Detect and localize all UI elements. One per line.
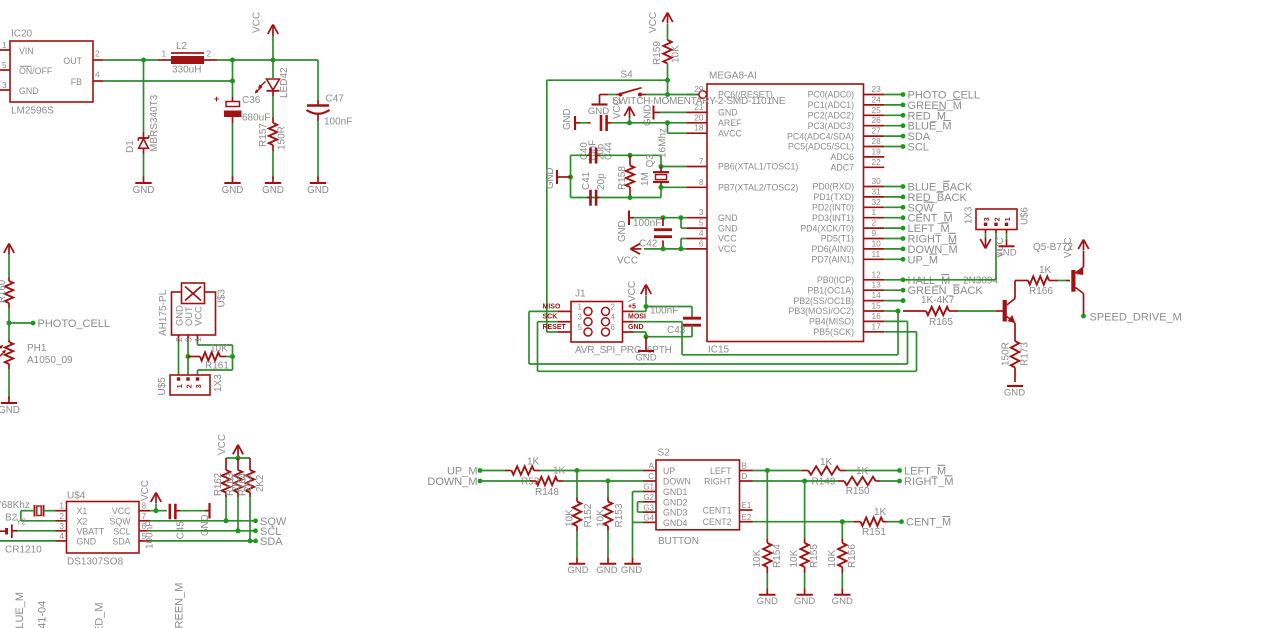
svg-text:C: C bbox=[648, 472, 654, 481]
svg-text:GND: GND bbox=[222, 185, 244, 196]
svg-text:DS1307SO8: DS1307SO8 bbox=[67, 557, 124, 568]
svg-text:SCL: SCL bbox=[908, 142, 929, 154]
svg-text:4: 4 bbox=[611, 313, 616, 322]
svg-text:CENT2: CENT2 bbox=[703, 517, 732, 527]
svg-text:2K2: 2K2 bbox=[255, 475, 266, 492]
svg-text:AREF: AREF bbox=[718, 118, 742, 128]
svg-text:GND: GND bbox=[562, 108, 573, 130]
svg-text:GND: GND bbox=[621, 565, 642, 576]
svg-text:VCC: VCC bbox=[617, 256, 638, 267]
svg-text:VCC: VCC bbox=[140, 480, 151, 501]
svg-text:C43: C43 bbox=[667, 325, 686, 336]
svg-text:2: 2 bbox=[95, 49, 100, 59]
svg-text:2N3094: 2N3094 bbox=[963, 275, 998, 286]
svg-text:3: 3 bbox=[59, 521, 64, 531]
svg-text:16: 16 bbox=[872, 311, 882, 321]
svg-text:U$5: U$5 bbox=[157, 377, 168, 396]
svg-text:8: 8 bbox=[142, 501, 147, 511]
svg-text:VCC: VCC bbox=[627, 281, 638, 302]
svg-text:19: 19 bbox=[872, 146, 882, 156]
svg-text:5: 5 bbox=[578, 323, 583, 332]
svg-text:10K: 10K bbox=[827, 549, 838, 567]
svg-text:PD7(AIN1): PD7(AIN1) bbox=[811, 255, 854, 265]
svg-text:PC3(ADC3): PC3(ADC3) bbox=[808, 121, 855, 131]
svg-text:SCL: SCL bbox=[113, 526, 130, 536]
svg-text:2: 2 bbox=[611, 302, 616, 311]
svg-text:10K: 10K bbox=[565, 509, 576, 527]
svg-text:RIGHT: RIGHT bbox=[704, 477, 732, 487]
svg-text:2: 2 bbox=[994, 217, 1001, 221]
svg-text:GND2: GND2 bbox=[663, 497, 688, 507]
svg-text:GND: GND bbox=[757, 596, 778, 607]
svg-text:20p: 20p bbox=[596, 173, 607, 190]
svg-text:1K: 1K bbox=[527, 457, 540, 468]
svg-text:SDA: SDA bbox=[112, 536, 130, 546]
svg-text:2: 2 bbox=[207, 49, 212, 59]
svg-text:PB6(XTAL1/TOSC1): PB6(XTAL1/TOSC1) bbox=[718, 162, 798, 172]
svg-text:GND3: GND3 bbox=[663, 508, 688, 518]
svg-text:10K: 10K bbox=[752, 549, 763, 567]
svg-text:VCC: VCC bbox=[718, 244, 737, 254]
svg-text:GND: GND bbox=[832, 596, 853, 607]
svg-text:1: 1 bbox=[1005, 217, 1012, 221]
svg-text:5: 5 bbox=[699, 218, 704, 228]
svg-text:VCC: VCC bbox=[112, 506, 131, 516]
svg-text:7: 7 bbox=[142, 511, 147, 521]
svg-text:GND: GND bbox=[1004, 388, 1025, 399]
svg-text:100nF: 100nF bbox=[324, 117, 352, 128]
svg-text:1K: 1K bbox=[1039, 265, 1052, 276]
svg-text:GND: GND bbox=[262, 185, 284, 196]
svg-text:R165: R165 bbox=[929, 317, 953, 328]
svg-text:1K-4K7: 1K-4K7 bbox=[921, 295, 955, 306]
svg-text:R166: R166 bbox=[1029, 286, 1053, 297]
svg-text:1K: 1K bbox=[553, 466, 566, 477]
svg-text:10K: 10K bbox=[671, 45, 682, 63]
svg-text:4: 4 bbox=[59, 531, 64, 541]
svg-text:18: 18 bbox=[694, 123, 704, 133]
svg-text:GND: GND bbox=[718, 108, 738, 118]
svg-text:1K: 1K bbox=[856, 466, 869, 477]
svg-text:L2: L2 bbox=[176, 41, 188, 52]
svg-text:1M: 1M bbox=[640, 172, 651, 186]
svg-text:C44: C44 bbox=[604, 142, 615, 160]
svg-text:R160: R160 bbox=[0, 279, 8, 303]
svg-text:C41: C41 bbox=[581, 171, 592, 190]
svg-text:PB4(MISO): PB4(MISO) bbox=[809, 317, 854, 327]
svg-text:2: 2 bbox=[186, 384, 193, 388]
svg-text:C47: C47 bbox=[326, 94, 345, 105]
svg-text:D: D bbox=[742, 472, 748, 481]
svg-text:R158: R158 bbox=[617, 166, 628, 190]
svg-text:J1: J1 bbox=[575, 289, 586, 300]
svg-text:GND: GND bbox=[567, 565, 588, 576]
svg-text:RESET: RESET bbox=[543, 324, 567, 331]
svg-text:GND: GND bbox=[19, 86, 39, 96]
svg-text:27: 27 bbox=[872, 126, 882, 136]
svg-text:R155: R155 bbox=[809, 544, 820, 568]
svg-text:G2: G2 bbox=[643, 493, 654, 502]
svg-text:4: 4 bbox=[95, 70, 100, 80]
svg-text:S2: S2 bbox=[658, 448, 671, 459]
svg-text:15: 15 bbox=[872, 301, 882, 311]
svg-text:PB5(SCK): PB5(SCK) bbox=[813, 327, 854, 337]
svg-text:2K2: 2K2 bbox=[243, 475, 254, 492]
svg-text:MEGA8-AI: MEGA8-AI bbox=[709, 71, 757, 82]
svg-text:3: 3 bbox=[699, 207, 704, 217]
svg-text:7: 7 bbox=[699, 156, 704, 166]
svg-text:DOWN_M: DOWN_M bbox=[427, 476, 477, 488]
svg-text:16Mhz: 16Mhz bbox=[658, 128, 669, 158]
svg-text:+5: +5 bbox=[628, 303, 636, 310]
svg-text:10K: 10K bbox=[210, 344, 228, 355]
svg-text:1: 1 bbox=[59, 501, 64, 511]
svg-text:PD0(RXD): PD0(RXD) bbox=[812, 182, 854, 192]
svg-text:1: 1 bbox=[177, 384, 184, 388]
svg-text:29: 29 bbox=[694, 84, 704, 94]
svg-text:24: 24 bbox=[872, 94, 882, 104]
svg-text:R159: R159 bbox=[652, 41, 663, 65]
svg-text:GND: GND bbox=[617, 220, 628, 242]
svg-text:ON/OFF: ON/OFF bbox=[19, 66, 53, 76]
svg-text:330uH: 330uH bbox=[172, 65, 201, 76]
svg-text:30: 30 bbox=[872, 176, 882, 186]
svg-text:ADC7: ADC7 bbox=[831, 163, 855, 173]
svg-text:PB3(MOSI/OC2): PB3(MOSI/OC2) bbox=[789, 306, 855, 316]
svg-text:GND: GND bbox=[77, 536, 97, 546]
svg-text:VCC: VCC bbox=[193, 306, 204, 326]
svg-text:IC15: IC15 bbox=[708, 345, 730, 356]
svg-text:PD2(INT0): PD2(INT0) bbox=[812, 203, 854, 213]
svg-text:22: 22 bbox=[872, 157, 882, 167]
svg-text:3: 3 bbox=[196, 384, 203, 388]
svg-text:2: 2 bbox=[59, 511, 64, 521]
svg-text:X2: X2 bbox=[77, 516, 88, 526]
svg-text:GND: GND bbox=[0, 405, 20, 416]
svg-text:13: 13 bbox=[872, 280, 882, 290]
svg-text:CENT_M: CENT_M bbox=[906, 517, 951, 529]
svg-text:ADC6: ADC6 bbox=[831, 152, 855, 162]
svg-text:G1: G1 bbox=[643, 483, 654, 492]
svg-text:PHOTO_CELL: PHOTO_CELL bbox=[38, 318, 111, 330]
svg-text:SPEED_DRIVE_M: SPEED_DRIVE_M bbox=[1090, 312, 1182, 324]
svg-text:PC4(ADC4/SDA): PC4(ADC4/SDA) bbox=[787, 131, 854, 141]
svg-text:28: 28 bbox=[872, 136, 882, 146]
svg-text:GND: GND bbox=[545, 167, 556, 189]
svg-text:OUT: OUT bbox=[63, 56, 82, 66]
svg-text:32: 32 bbox=[872, 197, 882, 207]
svg-text:6: 6 bbox=[699, 238, 704, 248]
svg-text:U$3: U$3 bbox=[217, 289, 228, 308]
svg-text:25: 25 bbox=[872, 105, 882, 115]
svg-text:R148: R148 bbox=[535, 487, 559, 498]
svg-text:+: + bbox=[214, 94, 219, 104]
svg-text:PB0(ICP): PB0(ICP) bbox=[817, 275, 854, 285]
svg-text:BUTTON: BUTTON bbox=[658, 536, 699, 547]
svg-text:E1: E1 bbox=[742, 501, 752, 510]
svg-text:VCC: VCC bbox=[252, 12, 263, 33]
svg-text:GND: GND bbox=[794, 596, 815, 607]
svg-text:UP_M: UP_M bbox=[908, 254, 939, 266]
svg-text:1X3: 1X3 bbox=[213, 374, 224, 392]
svg-text:R157: R157 bbox=[258, 123, 269, 147]
svg-text:PC1(ADC1): PC1(ADC1) bbox=[808, 100, 855, 110]
svg-text:100nF: 100nF bbox=[650, 306, 678, 317]
svg-text:SQW: SQW bbox=[109, 516, 131, 526]
svg-text:UP: UP bbox=[663, 466, 675, 476]
svg-text:R156: R156 bbox=[847, 544, 858, 568]
svg-text:R150: R150 bbox=[846, 486, 870, 497]
svg-text:GND1: GND1 bbox=[663, 487, 688, 497]
svg-text:2K2: 2K2 bbox=[231, 475, 242, 492]
svg-text:PD3(INT1): PD3(INT1) bbox=[812, 213, 854, 223]
svg-text:1K: 1K bbox=[874, 507, 887, 518]
svg-text:R154: R154 bbox=[772, 544, 783, 568]
svg-text:3: 3 bbox=[2, 80, 7, 90]
svg-text:MISO: MISO bbox=[543, 303, 561, 310]
svg-text:PH1: PH1 bbox=[27, 343, 47, 354]
svg-text:14: 14 bbox=[872, 290, 882, 300]
svg-text:C42: C42 bbox=[639, 238, 658, 249]
svg-text:VCC: VCC bbox=[217, 434, 228, 455]
svg-text:U$4: U$4 bbox=[67, 491, 86, 502]
svg-text:23: 23 bbox=[872, 84, 882, 94]
svg-text:GND: GND bbox=[307, 185, 329, 196]
svg-text:10K: 10K bbox=[596, 509, 607, 527]
svg-text:GND: GND bbox=[133, 185, 155, 196]
svg-text:VCC: VCC bbox=[718, 234, 737, 244]
svg-text:VBATT: VBATT bbox=[77, 526, 105, 536]
svg-text:3: 3 bbox=[984, 217, 991, 221]
svg-text:GND: GND bbox=[635, 353, 656, 364]
svg-text:LED42: LED42 bbox=[279, 67, 290, 98]
svg-text:X1: X1 bbox=[77, 506, 88, 516]
svg-text:R162: R162 bbox=[213, 473, 224, 496]
svg-text:100nF: 100nF bbox=[145, 521, 156, 549]
svg-text:100nF: 100nF bbox=[633, 218, 661, 229]
svg-text:PB1(OC1A): PB1(OC1A) bbox=[808, 285, 855, 295]
svg-text:R161: R161 bbox=[205, 361, 229, 372]
svg-text:6: 6 bbox=[611, 323, 616, 332]
svg-text:R152: R152 bbox=[583, 503, 594, 527]
svg-text:GND: GND bbox=[995, 248, 1016, 259]
svg-text:AH175-PL: AH175-PL bbox=[158, 289, 169, 336]
svg-text:MBRS340T3: MBRS340T3 bbox=[149, 94, 160, 152]
svg-text:PB7(XTAL2/TOSC2): PB7(XTAL2/TOSC2) bbox=[718, 183, 798, 193]
svg-text:PD6(AIN0): PD6(AIN0) bbox=[811, 244, 854, 254]
svg-text:GND: GND bbox=[200, 514, 211, 536]
svg-text:DOWN: DOWN bbox=[663, 477, 691, 487]
svg-text:8: 8 bbox=[699, 177, 704, 187]
svg-text:CR1210: CR1210 bbox=[5, 545, 42, 556]
svg-text:G3: G3 bbox=[643, 503, 654, 512]
svg-text:141-04: 141-04 bbox=[37, 601, 49, 628]
svg-text:RED_M: RED_M bbox=[94, 602, 106, 628]
svg-text:1X3: 1X3 bbox=[964, 207, 975, 224]
svg-text:26: 26 bbox=[872, 115, 882, 125]
svg-text:Q5-B772: Q5-B772 bbox=[1033, 242, 1073, 253]
svg-text:20: 20 bbox=[694, 112, 704, 122]
svg-text:12: 12 bbox=[872, 269, 882, 279]
svg-text:BLUE_M: BLUE_M bbox=[14, 592, 26, 628]
svg-text:17: 17 bbox=[872, 321, 882, 331]
svg-text:9: 9 bbox=[872, 228, 877, 238]
svg-text:1: 1 bbox=[578, 302, 583, 311]
svg-text:MOSI: MOSI bbox=[628, 314, 646, 321]
svg-text:U$6: U$6 bbox=[1020, 207, 1031, 225]
svg-text:AVCC: AVCC bbox=[718, 128, 742, 138]
svg-text:VCC: VCC bbox=[612, 99, 623, 119]
svg-text:1K: 1K bbox=[820, 457, 833, 468]
svg-text:A1050_09: A1050_09 bbox=[27, 355, 73, 366]
svg-text:150R: 150R bbox=[277, 126, 288, 150]
svg-text:150R: 150R bbox=[1001, 342, 1012, 366]
svg-text:GND: GND bbox=[718, 223, 738, 233]
svg-text:RIGHT_M: RIGHT_M bbox=[904, 476, 954, 488]
svg-text:3: 3 bbox=[578, 313, 583, 322]
svg-text:CENT1: CENT1 bbox=[703, 506, 732, 516]
svg-text:1: 1 bbox=[162, 49, 167, 59]
svg-text:10: 10 bbox=[872, 238, 882, 248]
svg-text:4: 4 bbox=[699, 228, 704, 238]
svg-text:GND4: GND4 bbox=[663, 518, 688, 528]
svg-text:GREEN_M: GREEN_M bbox=[174, 583, 186, 628]
svg-text:10K: 10K bbox=[789, 549, 800, 567]
svg-text:R153: R153 bbox=[614, 503, 625, 527]
svg-text:S4: S4 bbox=[621, 70, 634, 81]
svg-text:PC5(ADC5/SCL): PC5(ADC5/SCL) bbox=[788, 142, 854, 152]
svg-text:GND: GND bbox=[596, 565, 617, 576]
svg-text:A: A bbox=[649, 462, 655, 471]
svg-text:E2: E2 bbox=[742, 513, 752, 522]
svg-text:SCK: SCK bbox=[543, 314, 558, 321]
svg-text:C36: C36 bbox=[242, 95, 261, 106]
svg-text:680uF: 680uF bbox=[242, 113, 270, 124]
svg-text:G4: G4 bbox=[643, 514, 654, 523]
svg-text:SWITCH-MOMENTARY-2-SMD-1101NE: SWITCH-MOMENTARY-2-SMD-1101NE bbox=[612, 96, 786, 107]
svg-text:LM2596S: LM2596S bbox=[11, 106, 54, 117]
svg-text:GND: GND bbox=[718, 213, 738, 223]
svg-text:R151: R151 bbox=[862, 527, 886, 538]
svg-text:11: 11 bbox=[872, 249, 881, 259]
svg-text:AVR_SPI_PRG_6PTH: AVR_SPI_PRG_6PTH bbox=[575, 345, 672, 356]
svg-text:PD5(T1): PD5(T1) bbox=[821, 234, 854, 244]
svg-text:PD1(TXD): PD1(TXD) bbox=[813, 192, 854, 202]
svg-text:32.768Khz: 32.768Khz bbox=[0, 500, 30, 511]
svg-text:R173: R173 bbox=[1020, 342, 1031, 366]
svg-text:D1: D1 bbox=[125, 140, 136, 153]
svg-text:1: 1 bbox=[2, 40, 7, 50]
svg-text:B: B bbox=[742, 462, 747, 471]
svg-text:PD4(XCK/T0): PD4(XCK/T0) bbox=[800, 223, 854, 233]
svg-text:PC2(ADC2): PC2(ADC2) bbox=[808, 111, 855, 121]
svg-text:SDA: SDA bbox=[260, 536, 283, 548]
svg-text:PB2(SS/OC1B): PB2(SS/OC1B) bbox=[793, 296, 854, 306]
svg-text:IC20: IC20 bbox=[11, 29, 33, 40]
svg-text:PC0(ADC0): PC0(ADC0) bbox=[808, 90, 855, 100]
svg-text:2: 2 bbox=[872, 218, 877, 228]
svg-text:VIN: VIN bbox=[19, 46, 34, 56]
svg-text:31: 31 bbox=[872, 186, 882, 196]
svg-text:5: 5 bbox=[2, 60, 7, 70]
svg-text:LEFT: LEFT bbox=[710, 466, 732, 476]
svg-text:FB: FB bbox=[71, 77, 82, 87]
svg-text:Q3: Q3 bbox=[645, 154, 656, 168]
svg-text:VCC: VCC bbox=[648, 12, 659, 33]
svg-text:1: 1 bbox=[872, 207, 877, 217]
svg-text:GND: GND bbox=[628, 324, 644, 331]
svg-text:Y2: Y2 bbox=[16, 517, 27, 527]
